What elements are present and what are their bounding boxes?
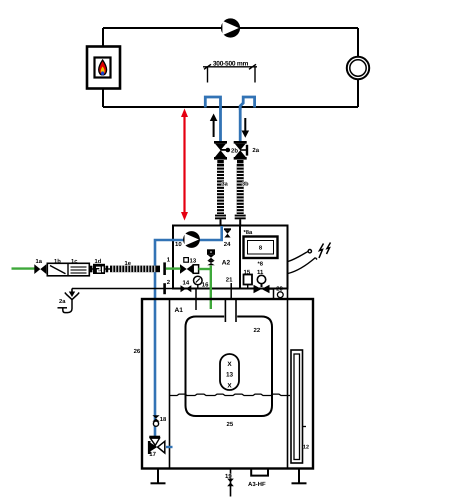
svg-text:1e: 1e <box>125 261 132 267</box>
svg-text:1c: 1c <box>71 259 78 265</box>
svg-text:A3-HF: A3-HF <box>248 481 266 488</box>
svg-text:*8: *8 <box>258 261 264 268</box>
svg-text:1d: 1d <box>95 258 102 265</box>
svg-text:X: X <box>227 382 232 389</box>
svg-text:18: 18 <box>160 416 167 423</box>
svg-text:19: 19 <box>225 473 232 480</box>
svg-text:25: 25 <box>227 421 234 428</box>
svg-text:15: 15 <box>244 269 251 276</box>
svg-text:1a: 1a <box>36 259 43 265</box>
svg-text:2a: 2a <box>59 298 66 305</box>
svg-text:2b: 2b <box>231 148 238 155</box>
svg-text:26: 26 <box>134 348 141 355</box>
svg-text:22: 22 <box>254 327 261 334</box>
svg-text:A1: A1 <box>175 307 184 314</box>
svg-text:10: 10 <box>175 241 182 248</box>
svg-text:12: 12 <box>303 445 309 451</box>
svg-text:1b: 1b <box>54 258 61 265</box>
svg-text:11: 11 <box>257 269 264 276</box>
svg-text:13: 13 <box>190 257 197 264</box>
svg-text:2: 2 <box>167 279 171 286</box>
svg-text:3a: 3a <box>222 181 229 187</box>
svg-text:300-500 mm: 300-500 mm <box>213 60 249 67</box>
svg-text:21: 21 <box>226 277 233 284</box>
svg-text:8: 8 <box>259 245 263 252</box>
svg-text:24: 24 <box>224 241 231 248</box>
svg-text:3b: 3b <box>242 180 249 187</box>
svg-text:1: 1 <box>167 257 171 264</box>
svg-text:*8a: *8a <box>244 229 253 236</box>
svg-text:X: X <box>227 361 232 368</box>
svg-text:16: 16 <box>202 282 209 289</box>
svg-text:17: 17 <box>149 451 156 458</box>
svg-text:14: 14 <box>183 279 190 286</box>
svg-text:13: 13 <box>226 372 234 379</box>
svg-text:A2: A2 <box>222 260 231 267</box>
svg-text:2a: 2a <box>252 147 259 154</box>
